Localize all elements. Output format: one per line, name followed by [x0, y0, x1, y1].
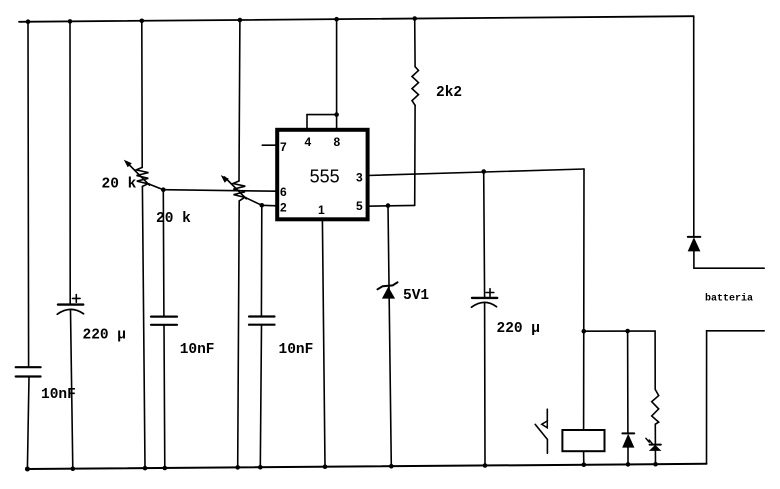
- node junction output cap: [481, 169, 486, 174]
- wire 220u C2 branch upper: [69, 21, 71, 304]
- node bottom rail junction dots: [25, 462, 658, 472]
- wire battery minus terminal down to ground rail: [707, 331, 765, 464]
- pin 7 stub: [262, 144, 277, 146]
- resistor R3 2k2 lower lead: [414, 105, 416, 205]
- switch S1 (relay contact): [535, 409, 547, 453]
- wire 10nF C4 branch upper: [260, 205, 262, 316]
- resistor R3 2k2 zigzag: [412, 67, 419, 106]
- capacitor C2 220u electrolytic: [57, 295, 83, 315]
- wire pin4-pin8 link: [307, 114, 337, 116]
- svg-text:10nF: 10nF: [279, 342, 314, 358]
- svg-text:20 k: 20 k: [156, 211, 191, 227]
- wire diode D2 to ground: [627, 448, 629, 465]
- wire R4 to LED: [654, 424, 656, 444]
- node junction pin 5: [386, 203, 391, 208]
- svg-text:7: 7: [280, 140, 287, 154]
- potentiometer R1 zigzag: [136, 167, 148, 186]
- potentiometer R2 body lower lead: [238, 201, 240, 468]
- svg-text:4: 4: [305, 135, 312, 149]
- wire 220u C5 branch lower: [484, 303, 486, 465]
- wire bottom ground rail: [27, 464, 706, 469]
- svg-text:1: 1: [318, 203, 325, 217]
- LED D3: [646, 438, 662, 451]
- wire pin 3 output: [368, 169, 584, 176]
- wire to 555 pin 6: [163, 190, 277, 192]
- capacitor C4 10nF: [249, 317, 275, 325]
- op-amp U1 555 timer box: [277, 130, 367, 220]
- wire left rail upper (to cap C1): [27, 22, 30, 367]
- capacitor C1 10nF (left rail): [16, 367, 41, 376]
- wire top supply rail: [19, 16, 694, 22]
- wire 220u C5 branch upper: [483, 172, 486, 298]
- wire right drop from rail to battery diode: [693, 16, 695, 237]
- svg-text:10nF: 10nF: [41, 387, 76, 403]
- node top rail junction dots: [26, 16, 417, 24]
- wire R1 wiper tap: [148, 184, 163, 190]
- wire 10nF C4 branch lower: [260, 325, 261, 467]
- capacitor C3 10nF: [151, 317, 177, 325]
- svg-text:batteria: batteria: [705, 293, 753, 305]
- wire LED to ground: [654, 451, 656, 464]
- svg-text:2k2: 2k2: [436, 85, 462, 101]
- wire to 555 pin 2: [262, 204, 278, 207]
- svg-text:220 µ: 220 µ: [497, 321, 541, 337]
- potentiometer R2 zigzag: [233, 181, 245, 201]
- wire indicator branch horizontal: [584, 331, 655, 389]
- resistor R3 2k2 upper lead: [414, 19, 416, 67]
- wire left rail lower (cap C1 to ground): [27, 377, 29, 469]
- wire diode to battery plus terminal: [694, 251, 764, 268]
- svg-text:555: 555: [310, 166, 340, 186]
- wire R2 wiper tap: [245, 197, 262, 205]
- wire relay to ground: [583, 451, 585, 464]
- svg-text:3: 3: [356, 171, 363, 185]
- wire output vertical to relay: [583, 169, 585, 430]
- wire vcc/reset drop from rail: [336, 19, 338, 114]
- wire pin 1 to ground: [322, 219, 325, 466]
- wire 10nF C3 branch lower: [163, 325, 166, 468]
- svg-text:5: 5: [356, 199, 363, 213]
- wire pin 5: [368, 204, 415, 207]
- svg-text:20 k: 20 k: [102, 177, 137, 193]
- node junction pot R2 tap: [260, 203, 265, 208]
- capacitor C5 220u electrolytic: [472, 289, 498, 308]
- resistor R4 (LED series) zigzag: [652, 389, 659, 424]
- zener diode Z1 5V1: [378, 282, 398, 298]
- potentiometer R2 20k body upper lead: [238, 20, 241, 181]
- node junction pot R1 tap: [161, 187, 166, 192]
- potentiometer R2 wiper arrow: [221, 175, 247, 199]
- wire diode D2 branch: [627, 331, 629, 433]
- svg-text:5V1: 5V1: [403, 288, 429, 304]
- node junction diode branch: [625, 329, 630, 334]
- svg-text:6: 6: [280, 185, 287, 199]
- node junction relay branch: [582, 329, 587, 334]
- pin 4 stub: [306, 115, 308, 130]
- svg-text:220 µ: 220 µ: [83, 328, 127, 344]
- svg-text:10nF: 10nF: [180, 342, 215, 358]
- wire 220u C2 branch lower to ground: [71, 310, 73, 468]
- diode D2: [622, 433, 634, 447]
- potentiometer R1 20k body upper lead: [141, 21, 143, 168]
- wire zener branch: [388, 206, 391, 467]
- pin 8 stub: [336, 115, 338, 130]
- potentiometer R1 wiper arrow: [124, 160, 150, 186]
- node junction pin8: [334, 112, 339, 117]
- svg-text:2: 2: [280, 200, 287, 214]
- relay K1 coil box: [562, 430, 604, 451]
- diode D1 (battery polarity diode): [688, 237, 701, 252]
- potentiometer R1 body lower lead: [142, 186, 145, 468]
- svg-text:8: 8: [334, 135, 341, 149]
- wire 10nF C3 branch upper: [162, 190, 165, 317]
